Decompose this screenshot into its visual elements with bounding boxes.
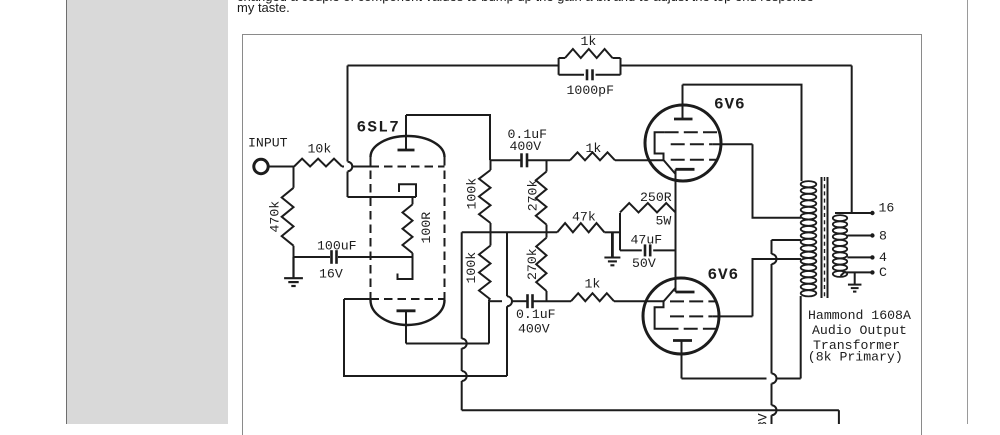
svg-text:100R: 100R xyxy=(419,212,434,244)
svg-text:470k: 470k xyxy=(267,201,282,233)
wire 1k to 6V6-b grid xyxy=(614,300,664,302)
label 4 xyxy=(879,250,887,265)
capacitor C3 0.1uF 400V (bottom) xyxy=(528,294,533,308)
plate of U1b xyxy=(397,311,416,344)
screen grid of V1 (dashed) xyxy=(671,143,753,145)
resistor R7 100k (plate load b) xyxy=(479,232,491,301)
resistor R5 270k (grid leak a) xyxy=(536,160,547,232)
input jack J1 xyxy=(254,159,268,173)
label 10k xyxy=(308,141,332,156)
label 100uF xyxy=(317,238,357,253)
wire crossover CT line over bottom bus xyxy=(772,405,777,415)
label 100k (upper) xyxy=(465,178,480,210)
svg-text:6SL7: 6SL7 xyxy=(357,119,401,137)
svg-text:1k: 1k xyxy=(585,277,601,292)
resistor R6 1k (grid stopper top 6V6) xyxy=(570,152,615,160)
label (8k Primary) xyxy=(808,349,903,364)
svg-text:5W: 5W xyxy=(656,213,672,228)
wire 10k to 6SL7 grid xyxy=(342,166,371,168)
capacitor C1 100uF xyxy=(332,250,337,264)
label Hammond 1608A xyxy=(808,308,911,323)
wire feedback left vertical drop to first cathode xyxy=(347,66,349,198)
wire OPT center tap down (B+) xyxy=(772,240,802,424)
label 1000pF xyxy=(567,83,614,98)
wire crossover tail over coupling-b xyxy=(507,296,512,306)
control grid of V2 (dashed) xyxy=(670,300,717,302)
svg-text:1k: 1k xyxy=(586,141,602,156)
capacitor C2 0.1uF 400V (top) xyxy=(522,153,528,167)
wire coupling to 1k grid stopper xyxy=(547,159,571,161)
resistor R3 100R (cathode) xyxy=(403,197,413,257)
resistor R2 470k (input load) xyxy=(282,167,294,258)
beam plate connection V1 xyxy=(655,132,676,174)
wire U1a plate to 100k and cap xyxy=(406,115,490,160)
ground at 470k/100uF xyxy=(284,257,303,286)
resistor R4 100k (plate load a) xyxy=(479,160,491,232)
wire crossover feedback line over grid wire xyxy=(348,162,353,172)
label 0.1uF (bottom) xyxy=(516,307,556,322)
wire cap to 270k-b junction xyxy=(533,300,572,302)
label 400V (top) xyxy=(510,139,542,154)
beam plates of V1 (dashed) xyxy=(665,131,718,133)
svg-text:6V6: 6V6 xyxy=(714,96,746,114)
label 250R xyxy=(640,190,672,205)
resistor R9 47k (tail) xyxy=(557,223,604,232)
wire shared cathode line xyxy=(675,169,677,292)
wire U1b plate node xyxy=(406,343,489,345)
label 470k xyxy=(267,201,282,233)
capacitor C-fb 1000pF (feedback) xyxy=(559,69,621,80)
svg-text:C: C xyxy=(879,265,887,280)
label 8 xyxy=(879,229,887,244)
transformer T1 core xyxy=(822,177,828,298)
label 16V xyxy=(319,267,343,282)
wire U1b grid exits left xyxy=(344,298,371,300)
svg-text:100uF: 100uF xyxy=(317,238,357,253)
grid of U1b (dashed) xyxy=(371,298,445,300)
label 100k (lower) xyxy=(464,252,479,284)
svg-text:250R: 250R xyxy=(640,190,672,205)
wire plate node to coupling cap xyxy=(490,159,547,161)
wire common tap xyxy=(841,272,873,276)
wire feedback from 16-ohm tap: top run xyxy=(348,65,852,67)
node terminal C xyxy=(870,270,874,274)
wire crossover CT line over plate-b wire xyxy=(772,374,777,384)
plate of V1 xyxy=(674,85,693,119)
label 1k (top) xyxy=(586,141,602,156)
sidebar border line xyxy=(66,0,67,424)
wire V1 screen to UL tap xyxy=(753,144,802,218)
clipped paragraph line above fold xyxy=(237,0,937,4)
label Transformer xyxy=(813,338,900,353)
wire cathode bypass node xyxy=(294,256,413,258)
label 1k (feedback) xyxy=(581,34,597,49)
beam plates of V2 (dashed) xyxy=(665,328,718,330)
resistor R10 250R 5W (cathode bias) xyxy=(620,203,676,212)
resistor R1 10k (grid stopper) xyxy=(294,159,342,167)
resistor R8 270k (grid leak b) xyxy=(536,232,546,301)
svg-text:Audio Output: Audio Output xyxy=(812,323,907,338)
ground at secondary common xyxy=(848,272,862,291)
wire U1b grid loop xyxy=(344,299,507,376)
svg-text:1k: 1k xyxy=(581,34,597,49)
ground at 47k node xyxy=(604,232,620,265)
wire V2 plate to OPT primary bottom xyxy=(682,296,801,379)
control grid of V1 (dashed) xyxy=(671,159,717,161)
svg-text:47uF: 47uF xyxy=(631,232,663,247)
wire input to grid node xyxy=(268,166,294,168)
wire V1 plate to OPT primary top xyxy=(683,85,802,181)
label 400V (bottom) xyxy=(518,321,550,336)
label 6V6 (bottom) xyxy=(708,266,740,284)
svg-text:270k: 270k xyxy=(525,180,540,212)
right content border line xyxy=(967,0,968,424)
label 6V6 (top) xyxy=(714,96,746,114)
wire V2 screen to UL tap xyxy=(753,259,802,316)
label 1k (bottom) xyxy=(585,277,601,292)
resistor R-fb 1k (feedback) xyxy=(559,49,621,75)
wire 4 ohm tap xyxy=(847,256,872,258)
svg-text:6.3V: 6.3V xyxy=(756,413,771,424)
schematic border box xyxy=(242,34,922,435)
wire 100k-b to plate-b wire xyxy=(488,301,490,343)
wire 8 ohm tap xyxy=(847,235,872,237)
label 47k xyxy=(572,210,596,225)
svg-text:INPUT: INPUT xyxy=(248,136,288,151)
label 270k (upper) xyxy=(525,180,540,212)
wire plate-b node to coupling cap xyxy=(489,300,528,302)
wire U1a cathode to feedback node xyxy=(348,196,417,198)
paragraph text: my taste. xyxy=(237,0,290,15)
label C xyxy=(879,265,887,280)
tube U1 6SL7 envelope xyxy=(371,136,445,325)
svg-text:16V: 16V xyxy=(319,267,343,282)
tube V2 6V6 (bottom) envelope xyxy=(643,278,719,354)
transformer T1 secondary winding xyxy=(833,215,847,277)
gray sidebar xyxy=(67,0,228,424)
svg-text:100k: 100k xyxy=(465,178,480,210)
label 5W xyxy=(656,213,672,228)
label 16 xyxy=(879,201,895,216)
node terminal 4 xyxy=(870,255,874,259)
label 6SL7 xyxy=(357,119,401,137)
cathode of U1a xyxy=(399,184,416,197)
svg-text:4: 4 xyxy=(879,250,887,265)
svg-text:8: 8 xyxy=(879,229,887,244)
wire tail node vertical xyxy=(506,232,508,376)
wire bias network left vertical xyxy=(619,213,621,250)
svg-text:400V: 400V xyxy=(518,321,550,336)
svg-text:50V: 50V xyxy=(632,256,656,271)
label 47uF xyxy=(631,232,663,247)
label 270k (lower) xyxy=(525,248,540,280)
label 0.1uF (top) xyxy=(508,127,548,142)
svg-text:47k: 47k xyxy=(572,210,596,225)
label 6.3V heater (clipped) xyxy=(756,413,771,435)
wire mid node horizontal run xyxy=(462,231,620,233)
cathode of V2 xyxy=(676,291,695,294)
label INPUT xyxy=(248,136,288,151)
svg-text:16: 16 xyxy=(879,201,895,216)
svg-text:10k: 10k xyxy=(308,141,332,156)
wire crossover coupling-b over tail xyxy=(0,0,1,1)
resistor R11 1k (grid stopper bottom 6V6) xyxy=(571,293,614,301)
svg-text:270k: 270k xyxy=(525,248,540,280)
cathode of U1b (bottom triode) xyxy=(398,257,413,279)
node terminal 16 xyxy=(870,211,874,215)
wire crossover at plate-b wire xyxy=(462,339,467,349)
wire mid node down-left vertical xyxy=(461,232,463,410)
transformer T1 primary winding xyxy=(801,181,817,296)
wire bottom ground bus xyxy=(462,410,839,424)
label Audio Output xyxy=(812,323,907,338)
svg-text:0.1uF: 0.1uF xyxy=(516,307,556,322)
tube V1 6V6 (top) envelope xyxy=(645,105,721,181)
beam plate connection V2 xyxy=(655,288,676,329)
svg-text:6V6: 6V6 xyxy=(708,266,740,284)
wire crossover CT line over UL2 xyxy=(772,254,777,264)
node terminal 8 xyxy=(870,233,874,237)
label 50V xyxy=(632,256,656,271)
svg-text:Hammond 1608A: Hammond 1608A xyxy=(808,308,911,323)
svg-text:400V: 400V xyxy=(510,139,542,154)
cathode of V1 xyxy=(676,168,695,171)
wire crossover at grid-b wire xyxy=(462,371,467,381)
plate of V2 xyxy=(673,341,692,379)
grid of U1a (dashed) xyxy=(371,166,445,168)
capacitor C4 47uF 50V (bypass) xyxy=(620,244,676,256)
plate of U1a (top triode) xyxy=(398,115,415,150)
svg-text:(8k Primary): (8k Primary) xyxy=(808,349,903,364)
label 100R xyxy=(419,212,434,244)
wire 1k to 6V6 grid xyxy=(615,159,664,161)
svg-text:100k: 100k xyxy=(464,252,479,284)
screen grid of V2 (dashed) xyxy=(670,315,753,317)
wire 16 ohm tap xyxy=(835,66,872,214)
svg-text:1000pF: 1000pF xyxy=(567,83,614,98)
